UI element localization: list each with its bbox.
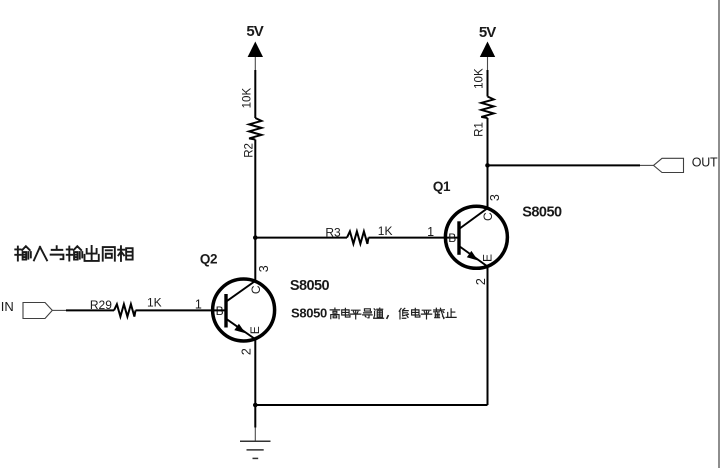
power 5V right bbox=[479, 24, 496, 71]
wire ground stub bbox=[254, 405, 256, 441]
svg-text:Q2: Q2 bbox=[200, 251, 217, 266]
wire Q2 emitter down bbox=[254, 339, 256, 405]
resistor R2 10K bbox=[241, 88, 261, 158]
svg-text:5V: 5V bbox=[479, 24, 496, 41]
transistor Q1 bbox=[445, 206, 507, 268]
wire R2 to Q2 collector bbox=[254, 140, 256, 282]
svg-text:R3: R3 bbox=[325, 226, 341, 240]
ground bbox=[240, 441, 271, 458]
svg-text:R2: R2 bbox=[243, 143, 255, 158]
svg-text:E: E bbox=[248, 326, 262, 334]
svg-text:3: 3 bbox=[488, 194, 502, 201]
node junction OUT bbox=[485, 163, 490, 168]
svg-text:1: 1 bbox=[427, 225, 434, 239]
svg-text:S8050: S8050 bbox=[291, 306, 327, 321]
svg-text:10K: 10K bbox=[241, 88, 253, 109]
port IN bbox=[1, 299, 53, 318]
note chinese title 输入与输出同相 bbox=[15, 246, 132, 261]
svg-text:2: 2 bbox=[240, 348, 254, 355]
wire R3 to Q1 base bbox=[369, 237, 460, 239]
svg-text:OUT: OUT bbox=[692, 155, 718, 169]
wire 5V to R2 bbox=[254, 70, 256, 118]
svg-text:5V: 5V bbox=[246, 23, 263, 40]
svg-text:C: C bbox=[481, 212, 495, 221]
wire Q1 emitter down bbox=[487, 267, 489, 406]
resistor R3 1K bbox=[325, 224, 392, 244]
svg-text:1K: 1K bbox=[378, 224, 393, 238]
svg-text:R29: R29 bbox=[90, 298, 112, 312]
svg-text:Q1: Q1 bbox=[433, 179, 451, 194]
svg-text:B: B bbox=[448, 231, 456, 245]
svg-text:1: 1 bbox=[195, 297, 202, 311]
wire bottom rail bbox=[255, 404, 487, 406]
svg-text:10K: 10K bbox=[473, 68, 485, 89]
page border right bbox=[718, 0, 720, 468]
resistor R1 10K bbox=[473, 68, 493, 137]
svg-text:S8050: S8050 bbox=[290, 278, 330, 294]
svg-text:1K: 1K bbox=[147, 296, 162, 310]
resistor R29 1K bbox=[90, 296, 162, 317]
wire R3 branch left bbox=[255, 237, 347, 239]
svg-text:E: E bbox=[480, 254, 494, 262]
svg-text:IN: IN bbox=[1, 299, 14, 314]
svg-text:C: C bbox=[249, 285, 263, 294]
wire IN lead bbox=[52, 309, 66, 311]
svg-text:S8050: S8050 bbox=[522, 205, 562, 221]
transistor Q2 bbox=[213, 279, 275, 341]
power 5V left bbox=[246, 23, 263, 71]
svg-text:R1: R1 bbox=[473, 122, 485, 137]
node junction R3 tap bbox=[253, 235, 258, 240]
node junction ground bbox=[253, 403, 258, 408]
wire R29 to Q2 base bbox=[136, 309, 227, 311]
wire IN to R29 bbox=[66, 309, 114, 311]
port OUT bbox=[654, 155, 718, 172]
wire R1 to OUT node bbox=[487, 118, 489, 208]
wire 5V to R1 bbox=[487, 70, 489, 97]
svg-text:3: 3 bbox=[257, 265, 271, 272]
wire OUT bbox=[488, 164, 654, 166]
svg-text:2: 2 bbox=[474, 278, 488, 285]
